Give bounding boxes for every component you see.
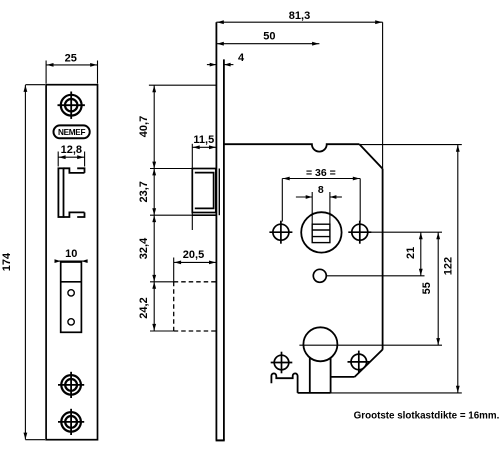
svg-text:122: 122 bbox=[443, 257, 455, 275]
dimension 50 (backset) bbox=[216, 31, 319, 46]
deadbolt front view bbox=[61, 262, 82, 332]
latch bolt side view bbox=[192, 169, 219, 216]
bottom-right chamfer bbox=[355, 350, 383, 377]
top screw hole with crosshair bbox=[58, 92, 85, 119]
svg-text:32,4: 32,4 bbox=[138, 237, 150, 259]
lower-left fixing hole crosshair bbox=[271, 352, 293, 374]
spindle square hole bbox=[312, 224, 330, 242]
extension line at latch bottom boundary bbox=[150, 214, 192, 216]
svg-text:40,7: 40,7 bbox=[138, 116, 150, 137]
svg-text:21: 21 bbox=[405, 247, 417, 259]
extension line at faceplate top (side view) bbox=[149, 84, 217, 86]
extension line case top to right bbox=[359, 144, 461, 146]
NEMEF logo bbox=[54, 125, 90, 138]
keyway right side bbox=[330, 357, 332, 393]
latch bolt front view bbox=[58, 168, 84, 217]
svg-text:174: 174 bbox=[1, 252, 13, 271]
extension line case bottom to right bbox=[331, 392, 462, 394]
dimension 122 bbox=[443, 145, 460, 393]
dimension 11,5 (latch projection) bbox=[192, 134, 216, 230]
dimension 21 bbox=[405, 232, 423, 276]
lock case top edge with spindle notch bbox=[224, 144, 360, 151]
svg-text:25: 25 bbox=[65, 53, 77, 65]
svg-text:24,2: 24,2 bbox=[138, 297, 150, 318]
bottom screw hole with crosshair bbox=[58, 409, 84, 435]
dimension 174 (faceplate height) bbox=[1, 85, 45, 440]
extension line spindle axis to right bbox=[369, 231, 443, 233]
latch top boundary extension bbox=[150, 168, 192, 170]
svg-text:81,3: 81,3 bbox=[289, 10, 310, 22]
extension line small hole to right bbox=[327, 275, 425, 277]
case right edge bbox=[382, 169, 384, 350]
euro cylinder hole circle bbox=[303, 327, 337, 361]
small hole below spindle bbox=[313, 269, 326, 282]
dimension 10 (deadbolt width) bbox=[55, 248, 88, 263]
extension line at deadbolt bottom boundary bbox=[150, 330, 174, 332]
case bottom channel edge bbox=[298, 392, 331, 394]
bottom mounting ears profile bbox=[271, 373, 297, 393]
dimension 8 (spindle square) bbox=[296, 184, 342, 224]
svg-text:4: 4 bbox=[238, 52, 245, 64]
svg-text:Grootste slotkastdikte = 16mm.: Grootste slotkastdikte = 16mm. bbox=[354, 411, 500, 422]
svg-text:20,5: 20,5 bbox=[183, 249, 204, 261]
svg-text:55: 55 bbox=[421, 282, 433, 294]
extension line at deadbolt top boundary bbox=[150, 281, 174, 283]
middle screw hole with crosshair bbox=[58, 372, 84, 398]
svg-text:50: 50 bbox=[263, 31, 275, 43]
dimension 55 bbox=[421, 232, 440, 345]
svg-text:8: 8 bbox=[318, 184, 324, 196]
faceplate edge-on (side view) left line bbox=[215, 22, 217, 440]
vertical chain dimension line 40,7 / 23,7 / 32,4 / 24,2 bbox=[152, 85, 156, 331]
svg-text:12,8: 12,8 bbox=[61, 144, 82, 156]
svg-text:NEMEF: NEMEF bbox=[58, 128, 85, 137]
top-right chamfer bbox=[359, 144, 382, 169]
faceplate front view outline bbox=[46, 85, 97, 440]
extension line cylinder axis bbox=[299, 344, 442, 346]
dimension 4 (faceplate thickness) bbox=[207, 52, 245, 67]
dimension 12,8 (latch width) bbox=[58, 144, 84, 167]
dimension 20,5 (case hidden depth) bbox=[174, 249, 217, 282]
dimension 81,3 (case total depth) bbox=[216, 10, 382, 169]
bottom edge right section bbox=[331, 376, 355, 378]
dimension 25 (faceplate width) bbox=[46, 53, 98, 84]
svg-text:= 36 =: = 36 = bbox=[306, 167, 336, 179]
dashed hidden outline of lock case behind plate bbox=[174, 282, 217, 331]
dimension =36= (fixing hole spacing) bbox=[282, 167, 360, 222]
svg-text:23,7: 23,7 bbox=[138, 181, 150, 202]
keyway left side bbox=[309, 357, 311, 393]
lower-right fixing hole crosshair bbox=[348, 351, 371, 374]
faceplate bottom cap bbox=[216, 439, 225, 441]
right fixing hole crosshair bbox=[348, 221, 371, 244]
svg-text:11,5: 11,5 bbox=[193, 134, 214, 146]
svg-text:10: 10 bbox=[65, 248, 77, 260]
left fixing hole crosshair bbox=[269, 221, 292, 244]
spindle follower circle bbox=[301, 212, 341, 252]
faceplate edge-on right line bbox=[223, 59, 225, 440]
